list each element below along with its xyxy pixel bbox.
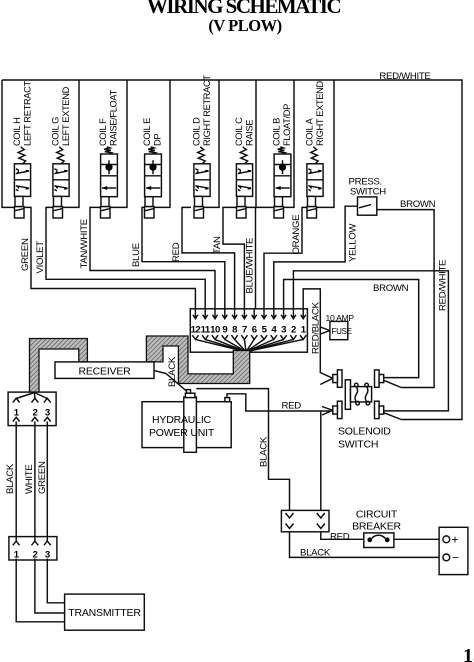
breaker terminal left (367, 537, 372, 542)
coil H common wire from rail (2, 80, 15, 207)
solenoid switch terminal lower-left (337, 401, 342, 418)
wire BLUE: coil E to pin 9 (142, 207, 225, 318)
svg-text:WHITE: WHITE (24, 465, 35, 494)
wire: breaker to battery (394, 538, 439, 540)
coil D common wire from rail (204, 80, 220, 207)
2-pin right pin arrows (317, 513, 325, 518)
svg-text:HYDRAULIC: HYDRAULIC (152, 414, 211, 426)
3-pin connector (plow side) (8, 392, 56, 426)
3-pin lower: pin 2 (34, 537, 36, 542)
wire YELLOW: press switch to pin 4 (274, 206, 358, 318)
coil B spring (278, 147, 285, 154)
coil E plug connector (145, 207, 155, 218)
wire WHITE: upper to lower 3-pin connector (34, 426, 36, 537)
solenoid switch terminal upper-left (337, 370, 342, 387)
svg-text:RED: RED (282, 401, 302, 412)
wire BLACK: receiver to hydraulic pump motor (154, 371, 187, 392)
svg-text:7: 7 (242, 325, 247, 336)
solenoid switch terminal upper-right (375, 370, 380, 387)
pin 5 crimp (261, 335, 267, 339)
coil G plug connector (53, 207, 63, 218)
coil G common wire from rail (63, 80, 80, 207)
pin 8 fan wire (235, 339, 246, 351)
svg-text:BLACK: BLACK (259, 436, 270, 467)
wire: pin 3 to transmitter (47, 560, 64, 603)
pin 10 wire arrow (214, 309, 216, 318)
svg-text:+: + (452, 533, 459, 547)
pin 8 wire arrow (234, 309, 236, 318)
coil F valve body (101, 154, 118, 197)
svg-text:10: 10 (210, 325, 220, 336)
svg-text:BLACK: BLACK (300, 547, 331, 558)
pin 9 crimp (222, 335, 228, 339)
pin 6 fan wire (246, 339, 254, 351)
pin 6 wire arrow (253, 309, 255, 318)
pin 12 fan wire (195, 339, 246, 351)
wire BLACK: upper to lower 3-pin connector (15, 426, 17, 537)
svg-text:TAN: TAN (212, 236, 223, 254)
wire VIOLET: coil G to pin 11 (46, 207, 205, 318)
svg-text:POWER UNIT: POWER UNIT (149, 427, 215, 439)
pin 1 fan wire (246, 339, 303, 351)
svg-text:(V PLOW): (V PLOW) (208, 16, 281, 35)
coil B plug connector (274, 207, 284, 218)
svg-text:TAN/WHITE: TAN/WHITE (79, 219, 90, 268)
coil A valve body (307, 164, 323, 197)
svg-text:RIGHT RETRACT: RIGHT RETRACT (202, 75, 212, 146)
pin 7 fan wire (244, 339, 246, 351)
wire: red branch down to 2-pin connector right pin (320, 411, 322, 519)
battery box (439, 527, 468, 574)
svg-text:LEFT RETRACT: LEFT RETRACT (23, 80, 33, 146)
fuse tap fork (320, 327, 330, 334)
svg-text:−: − (452, 550, 459, 564)
coil C common wire from rail (246, 80, 256, 207)
svg-text:6: 6 (252, 325, 257, 336)
coil G spring (57, 147, 64, 164)
receiver box (55, 362, 154, 379)
coil H plug connector (15, 207, 25, 218)
solenoid coil body (345, 380, 350, 410)
pin 4 crimp (271, 335, 277, 339)
3-pin upper: pin 1 (16, 393, 34, 399)
12-pin connector block (190, 309, 307, 352)
svg-text:ORANGE: ORANGE (291, 215, 302, 255)
svg-text:RIGHT EXTEND: RIGHT EXTEND (315, 81, 325, 146)
pin 7 wire arrow (243, 309, 245, 318)
coil D spring (198, 147, 205, 164)
svg-text:RED: RED (171, 242, 182, 262)
pin 2 wire arrow (292, 309, 294, 318)
fuse box (330, 321, 348, 339)
coil A plug connector (307, 207, 317, 218)
wire BROWN: pin 3 to solenoid upper-right (284, 280, 419, 378)
coil A spring (311, 147, 318, 164)
pin 12 wire arrow (194, 309, 196, 318)
solenoid switch terminal lower-right (375, 401, 380, 418)
coil F stem (101, 197, 109, 207)
coil A common wire from rail (317, 80, 335, 207)
pressure switch box (358, 197, 377, 215)
wire: pin 1 to transmitter (16, 560, 64, 622)
pin 3 wire arrow (283, 309, 285, 318)
wire BLUE/WHITE: coil B to pin 6 (256, 207, 275, 318)
motor cap (185, 393, 195, 397)
wire GREEN: upper to lower 3-pin connector (46, 426, 48, 537)
2-pin connector box (281, 510, 329, 531)
svg-text:BROWN: BROWN (400, 199, 436, 210)
breaker arc (372, 535, 385, 538)
svg-text:COIL F: COIL F (98, 118, 108, 146)
svg-text:RECEIVER: RECEIVER (78, 365, 131, 377)
pin 3 fan wire (246, 339, 284, 351)
coil B valve body (274, 154, 291, 197)
pin 4 wire arrow (273, 309, 275, 318)
svg-text:LEFT EXTEND: LEFT EXTEND (61, 86, 71, 146)
svg-text:FUSE: FUSE (332, 327, 352, 336)
motor terminal nub (187, 390, 191, 394)
svg-text:GREEN: GREEN (20, 238, 31, 271)
wire BROWN: press switch to solenoid upper-right (377, 210, 434, 388)
pin 11 fan wire (205, 339, 246, 351)
svg-text:COIL B: COIL B (272, 118, 282, 146)
pump motor cylinder (184, 397, 197, 452)
svg-text:BLUE: BLUE (131, 243, 142, 267)
svg-text:COIL D: COIL D (192, 117, 202, 146)
svg-text:RAISE/FLOAT: RAISE/FLOAT (109, 89, 119, 146)
hatched harness cable: receiver to 3-pin connector (30, 339, 88, 393)
pin 1 wire arrow (302, 309, 304, 318)
svg-text:DP: DP (153, 134, 163, 146)
wire RED: unit terminal to solenoid lower-left (227, 394, 330, 411)
coil E common wire from rail (154, 80, 170, 207)
svg-text:RAISE: RAISE (245, 120, 255, 146)
coil B stem (275, 197, 283, 207)
battery negative terminal (443, 554, 450, 561)
svg-text:SOLENOID: SOLENOID (338, 426, 391, 438)
unit terminal nub (right) (225, 398, 230, 402)
coil B common wire from rail (284, 80, 295, 207)
svg-text:BLACK: BLACK (167, 356, 178, 387)
svg-text:BREAKER: BREAKER (352, 521, 401, 533)
coil E valve body (145, 154, 162, 197)
coil H spring (18, 147, 25, 164)
svg-text:VIOLET: VIOLET (35, 241, 46, 274)
svg-text:9: 9 (222, 325, 227, 336)
svg-text:COIL H: COIL H (12, 117, 22, 146)
svg-text:BLUE/WHITE: BLUE/WHITE (245, 238, 256, 294)
pin 4 fan wire (246, 339, 274, 351)
wire RED: coil D to pin 8 (182, 207, 235, 318)
pin 5 fan wire (246, 339, 264, 351)
pin 7 crimp (241, 335, 247, 339)
pin 5 wire arrow (263, 309, 265, 318)
circuit breaker box (364, 533, 394, 548)
svg-text:GREEN: GREEN (37, 461, 48, 494)
coil C spring (240, 147, 247, 164)
svg-text:RED/BLACK: RED/BLACK (311, 301, 322, 354)
svg-text:RED: RED (330, 532, 350, 543)
3-pin upper: pin 3 (34, 393, 47, 399)
pin 10 crimp (212, 335, 218, 339)
svg-text:10 AMP: 10 AMP (326, 313, 355, 323)
pin 12 crimp (192, 335, 198, 339)
svg-text:2: 2 (291, 325, 296, 336)
coil H valve body (14, 164, 30, 197)
3-pin upper: pin 2 (33, 393, 36, 399)
svg-text:TRANSMITTER: TRANSMITTER (68, 607, 141, 619)
svg-text:BROWN: BROWN (373, 283, 409, 294)
coil D plug connector (194, 207, 204, 218)
coil C valve body (236, 164, 252, 197)
wire RED: connector to circuit breaker (321, 532, 364, 540)
svg-text:15: 15 (463, 645, 474, 662)
pin 11 wire arrow (204, 309, 206, 318)
pin 9 wire arrow (224, 309, 226, 318)
hatched harness cable: connector block to receiver (146, 336, 249, 384)
coil A stem (308, 196, 316, 206)
wire BLACK: motor to 2-pin connector (196, 389, 289, 519)
svg-text:RED/WHITE: RED/WHITE (379, 71, 430, 82)
2-pin left pin arrows (286, 513, 294, 518)
svg-text:RED/WHITE: RED/WHITE (438, 260, 449, 311)
pin 10 fan wire (215, 339, 246, 351)
coil F common wire from rail (110, 80, 127, 207)
coil G stem (54, 196, 62, 206)
pin 2 fan wire (246, 339, 293, 351)
pin 6 crimp (251, 335, 257, 339)
wire GREEN: coil H to pin 12 (25, 207, 196, 318)
svg-text:3: 3 (281, 325, 286, 336)
svg-text:CIRCUIT: CIRCUIT (356, 509, 398, 521)
3-pin connector (transmitter side) (9, 537, 57, 560)
svg-text:SWITCH: SWITCH (350, 187, 386, 198)
svg-text:FLOAT/DP: FLOAT/DP (282, 104, 292, 146)
coil H stem (15, 196, 23, 206)
wire ORANGE: coil A to pin 5 (264, 207, 307, 318)
svg-text:BLACK: BLACK (5, 463, 16, 494)
svg-text:COIL A: COIL A (305, 117, 315, 146)
wire: pin 2 to solenoid lower-right (293, 271, 448, 411)
wire BLACK: connector to battery (290, 532, 440, 558)
pin 3 crimp (281, 335, 287, 339)
svg-text:COIL G: COIL G (51, 117, 61, 146)
3-pin lower: pin 1 (15, 537, 17, 542)
coil D valve body (194, 164, 210, 197)
pin 9 fan wire (225, 339, 246, 351)
svg-text:COIL E: COIL E (142, 118, 152, 146)
wire RED/BLACK: pin 1 up over to fuse and solenoid upper-left (303, 289, 333, 378)
pin 1 crimp (300, 335, 306, 339)
coil E stem (145, 197, 153, 207)
coil G valve body (53, 164, 69, 197)
svg-text:COIL C: COIL C (234, 117, 244, 146)
coil F spring (104, 147, 111, 154)
coil F plug connector (101, 207, 111, 218)
coil C stem (237, 196, 245, 206)
coil D stem (195, 196, 203, 206)
3-pin lower: pin 3 (46, 537, 48, 542)
battery positive terminal (443, 536, 450, 543)
wire: rail diagonal into solenoid lower-right terminal (384, 413, 401, 420)
wire: RED/WHITE top rail (2, 80, 462, 420)
svg-text:YELLOW: YELLOW (348, 223, 359, 262)
pin 11 crimp (202, 335, 208, 339)
wire TAN: coil C to pin 7 (223, 207, 244, 318)
coil E spring (148, 147, 155, 154)
pin 2 crimp (290, 335, 296, 339)
svg-text:12: 12 (191, 325, 201, 336)
svg-text:SWITCH: SWITCH (338, 439, 378, 451)
wire TAN/WHITE: coil F to pin 10 (90, 207, 215, 318)
transmitter box (65, 594, 145, 630)
breaker terminal right (385, 537, 390, 542)
wire: pin 2 to transmitter (35, 560, 65, 613)
pin 8 crimp (232, 335, 238, 339)
hydraulic power unit box (142, 402, 231, 448)
coil C plug connector (237, 207, 247, 218)
